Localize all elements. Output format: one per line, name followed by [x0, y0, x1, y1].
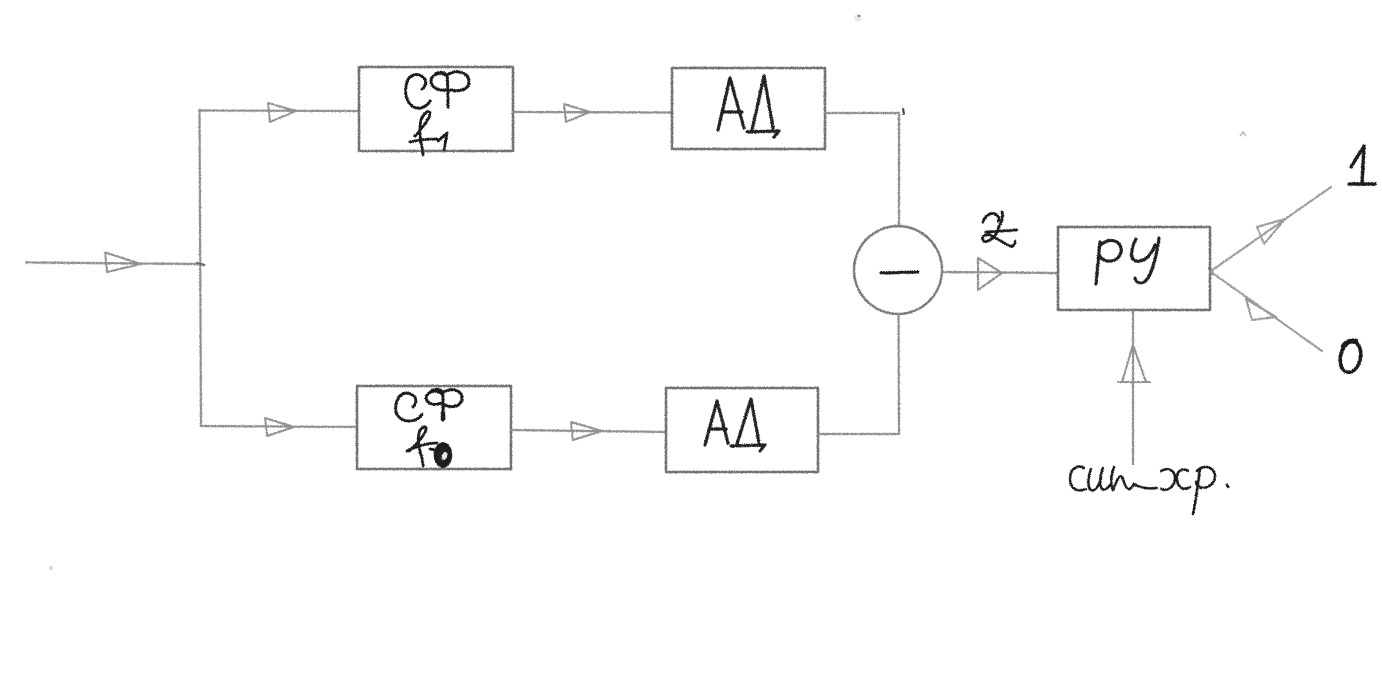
- arrowhead to 0: [1246, 299, 1276, 320]
- label Z (difference signal): [983, 212, 1017, 246]
- paper speck top middle: [854, 14, 862, 22]
- wire bottom branch to СФ f0: [201, 426, 357, 427]
- arrowhead bottom branch: [265, 418, 294, 436]
- tick at top corner: [903, 109, 904, 114]
- wire РУ to output 0: [1211, 272, 1322, 351]
- node РУ output junction: [1209, 268, 1213, 274]
- wire top branch to СФ f1: [200, 109, 360, 112]
- label АД (top box): [718, 76, 779, 137]
- block АД bottom (amplitude detector): [666, 388, 818, 472]
- paper speck bottom left: [49, 566, 53, 570]
- label f1 (in f1 box): [410, 112, 447, 155]
- subtractor circle: [854, 226, 942, 314]
- block РУ (decision device): [1058, 227, 1210, 310]
- block СФ f0 (matched filter f0): [357, 386, 511, 469]
- arrowhead mid bottom: [571, 422, 602, 440]
- arrowhead to 1: [1257, 219, 1285, 244]
- wire splitter vertical: [200, 110, 202, 426]
- wire СФ f1 to АД: [513, 111, 672, 114]
- label 0 (output zero): [1337, 340, 1363, 374]
- node input junction: [197, 263, 204, 265]
- wire sync input (vertical up into РУ): [1132, 311, 1134, 464]
- arrowhead on input wire: [105, 253, 141, 273]
- arrowhead mid top: [564, 104, 590, 122]
- label f0 (in f0 box): [407, 427, 444, 466]
- wire РУ to output 1: [1211, 187, 1331, 271]
- block АД top (amplitude detector): [672, 68, 825, 149]
- label СФ (in f1 box): [406, 72, 470, 108]
- label 0 subscript blob (in f0 box): [436, 445, 450, 466]
- paper speck right: [1240, 132, 1246, 136]
- arrowhead into РУ: [978, 258, 1002, 290]
- label 1 (output one): [1349, 146, 1375, 184]
- label РУ (in box): [1096, 238, 1159, 284]
- wire СФ f0 to АД bottom: [511, 430, 666, 432]
- label СФ (in f0 box): [396, 390, 462, 421]
- label АД (bottom box): [705, 399, 765, 451]
- wire АД to summing circle (top): [825, 113, 899, 226]
- block СФ f1 (matched filter f1): [359, 67, 513, 151]
- wire circle to РУ: [942, 272, 1058, 273]
- arrowhead sync (pointing up): [1118, 345, 1150, 382]
- minus sign: [881, 272, 918, 273]
- wire АД bottom to summing circle: [818, 314, 899, 434]
- label синхр. (sync): [1070, 467, 1228, 514]
- arrowhead top branch: [268, 103, 296, 122]
- wire input horizontal: [26, 263, 201, 265]
